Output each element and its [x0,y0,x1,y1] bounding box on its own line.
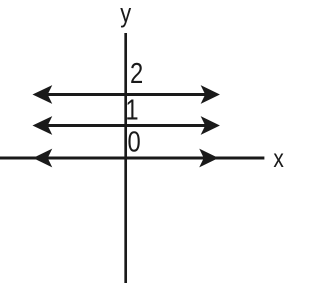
svg-text:y: y [120,0,132,28]
svg-text:0: 0 [128,125,141,158]
svg-text:2: 2 [130,57,143,90]
svg-text:x: x [273,144,284,172]
svg-text:1: 1 [125,94,138,127]
